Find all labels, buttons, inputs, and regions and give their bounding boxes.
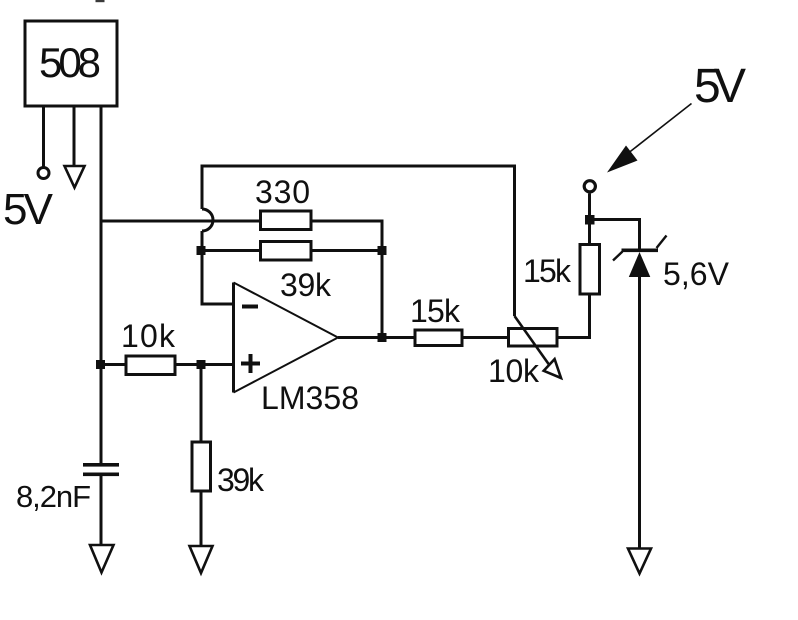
svg-text:8,2nF: 8,2nF bbox=[16, 479, 91, 514]
wire 39k-to-ground bottom bbox=[200, 491, 203, 546]
wire pin2 (middle pin of 508) bbox=[73, 106, 76, 166]
wire 15k pullup top bbox=[588, 194, 591, 245]
svg-text:10k: 10k bbox=[121, 318, 176, 354]
node B (feedback right junction) bbox=[378, 246, 387, 255]
ground (39k) bbox=[190, 546, 213, 573]
wire sensor output horizontal bbox=[101, 220, 261, 223]
svg-text:5,6V: 5,6V bbox=[663, 256, 730, 292]
terminal circle pin1 bbox=[38, 168, 49, 179]
node E (output junction) bbox=[378, 333, 387, 342]
resistor 39k to ground bbox=[192, 442, 211, 491]
wire pot right bbox=[557, 294, 590, 338]
wire capacitor bottom bbox=[100, 476, 103, 545]
node F (supply junction) bbox=[585, 215, 595, 225]
wire top feedback horizontal bbox=[202, 166, 515, 316]
wire inverting-input vertical bbox=[202, 231, 234, 304]
ground (508 middle pin) bbox=[65, 166, 85, 188]
resistor 330 bbox=[261, 211, 312, 230]
ground (capacitor) bbox=[90, 545, 114, 573]
svg-text:LM358: LM358 bbox=[261, 380, 359, 416]
IC box 508 bbox=[25, 21, 117, 106]
op-amp minus sign bbox=[242, 305, 258, 309]
zener diode D1 5,6V bbox=[622, 249, 659, 253]
svg-text:15k: 15k bbox=[410, 293, 461, 329]
svg-text:39k: 39k bbox=[280, 267, 332, 303]
node A (feedback left junction) bbox=[197, 246, 206, 255]
wire 39k feedback left bbox=[201, 249, 261, 252]
resistor 15k series bbox=[415, 330, 462, 346]
svg-text:15k: 15k bbox=[523, 253, 572, 289]
wire 15k-to-pot bbox=[462, 336, 509, 339]
wire 39k right bbox=[311, 249, 382, 252]
wire supply-to-zener bbox=[590, 220, 640, 250]
terminal circle 5V supply bbox=[584, 181, 595, 192]
op-amp plus sign bbox=[241, 362, 260, 366]
node C (rail / 10k junction) bbox=[96, 360, 105, 369]
wire op-amp output bbox=[338, 336, 415, 339]
potentiometer 10k body bbox=[509, 329, 558, 347]
resistor 15k pullup bbox=[580, 245, 600, 295]
svg-text:39k: 39k bbox=[217, 462, 265, 498]
svg-text:508: 508 bbox=[39, 39, 101, 86]
capacitor 8,2nF bbox=[83, 463, 119, 467]
node D (plus input / 39k junction) bbox=[197, 360, 206, 369]
wire pin3 / left rail bbox=[100, 106, 103, 464]
svg-text:330: 330 bbox=[255, 174, 310, 210]
resistor 39k feedback bbox=[261, 242, 312, 261]
annotation arrow line bbox=[622, 104, 692, 159]
potentiometer wiper arrow bbox=[515, 316, 551, 366]
svg-text:5V: 5V bbox=[3, 185, 54, 234]
ground (zener) bbox=[628, 549, 651, 574]
svg-text:10k: 10k bbox=[488, 353, 540, 389]
svg-text:5V: 5V bbox=[694, 60, 746, 113]
wire noninverting input bbox=[101, 363, 234, 366]
wire 39k-to-ground top bbox=[200, 365, 203, 442]
annotation arrowhead bbox=[607, 146, 638, 173]
wire pin1 (left pin of 508) bbox=[42, 106, 45, 167]
wire 330 right bbox=[311, 221, 382, 338]
op-amp U1 LM358 bbox=[232, 283, 235, 393]
resistor 10k input bbox=[126, 356, 175, 375]
wire zener to ground bbox=[638, 277, 641, 549]
wire hop (vertical jumps horizontal) bbox=[202, 209, 213, 231]
artifact smudge top edge bbox=[96, 0, 105, 2]
